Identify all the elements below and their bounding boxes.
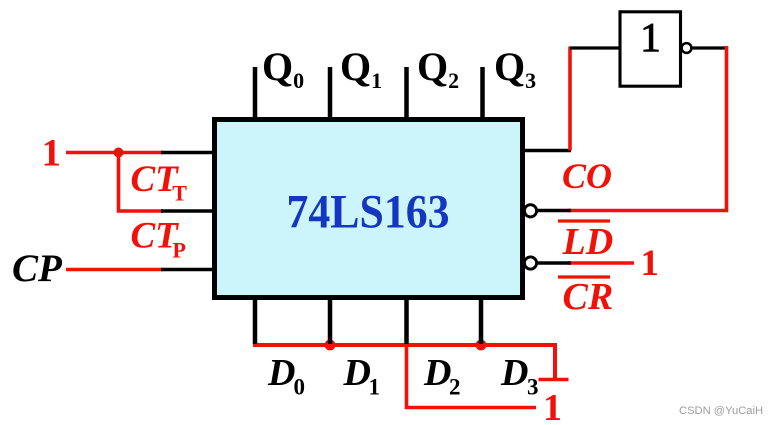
wire: black inverter output: [692, 46, 728, 49]
pin D1 bottom: [328, 297, 333, 344]
svg-text:Q1: Q1: [340, 44, 382, 93]
wire: red vertical from junction to CT_P wire: [119, 153, 164, 212]
wire: black stub CT_T pin: [161, 151, 216, 155]
bubble LD pin: [524, 205, 536, 217]
svg-text:1: 1: [641, 243, 660, 284]
wire: red bus under D inputs: [253, 343, 554, 347]
inverter U1 box: [620, 12, 681, 86]
junction dot left 1: [114, 148, 124, 158]
svg-text:2: 2: [449, 375, 461, 400]
svg-text:CSDN @YuCaiH: CSDN @YuCaiH: [679, 405, 763, 417]
wire: black stub CT_P pin: [161, 209, 216, 213]
svg-text:CP: CP: [12, 247, 63, 290]
svg-text:LD: LD: [562, 221, 614, 263]
svg-text:Q3: Q3: [494, 44, 536, 93]
wire: red vertical CO up to inverter input: [568, 47, 572, 151]
junction dot on bus at D1: [325, 340, 336, 351]
wire: left input 1 horizontal red: [66, 151, 163, 155]
inverter output bubble: [682, 43, 692, 53]
chip 74LS163 body: [215, 120, 523, 298]
svg-text:3: 3: [527, 375, 539, 400]
pin Q1 top: [328, 67, 333, 122]
svg-text:P: P: [173, 238, 186, 263]
wire: black stub LD pin: [536, 209, 571, 213]
svg-text:1: 1: [42, 132, 62, 175]
wire: black stub CR pin: [536, 261, 571, 265]
svg-text:D: D: [500, 352, 528, 394]
wire: black stub CP pin: [161, 268, 216, 272]
svg-text:T: T: [172, 181, 187, 206]
svg-text:D: D: [423, 352, 451, 394]
overline LD: [558, 219, 610, 222]
pin D0 bottom: [253, 297, 258, 344]
svg-text:D: D: [267, 352, 295, 394]
wire: red drop at D2 pin down and right to bottom 1: [407, 345, 537, 408]
wire: black inverter input: [570, 46, 620, 49]
svg-text:Q2: Q2: [417, 44, 459, 93]
bubble CR pin: [524, 257, 536, 269]
svg-text:1: 1: [369, 375, 381, 400]
pin Q3 top: [480, 67, 485, 122]
svg-text:1: 1: [640, 14, 661, 60]
svg-text:D: D: [343, 352, 371, 394]
pin D2 bottom: [404, 297, 409, 344]
pin Q0 top: [253, 67, 258, 122]
svg-text:Q0: Q0: [262, 44, 304, 93]
wire: CO black stub: [523, 149, 571, 153]
wire: red CR to 1: [568, 261, 634, 265]
svg-text:1: 1: [543, 387, 562, 425]
junction dot on bus at D3: [476, 340, 487, 351]
svg-text:0: 0: [294, 375, 306, 400]
wire: CP red horizontal: [66, 268, 163, 272]
svg-text:74LS163: 74LS163: [287, 186, 450, 239]
pin Q2 top: [404, 67, 409, 122]
wire: crossbar terminal near D3: [539, 378, 569, 382]
wire: red feedback from inverter output down to LD: [568, 46, 727, 211]
svg-text:CO: CO: [562, 156, 612, 196]
svg-text:CR: CR: [563, 276, 614, 318]
overline CR: [558, 275, 610, 278]
pin D3 bottom: [479, 297, 484, 344]
wire: red drop from bus to D3 high terminal: [553, 343, 557, 380]
